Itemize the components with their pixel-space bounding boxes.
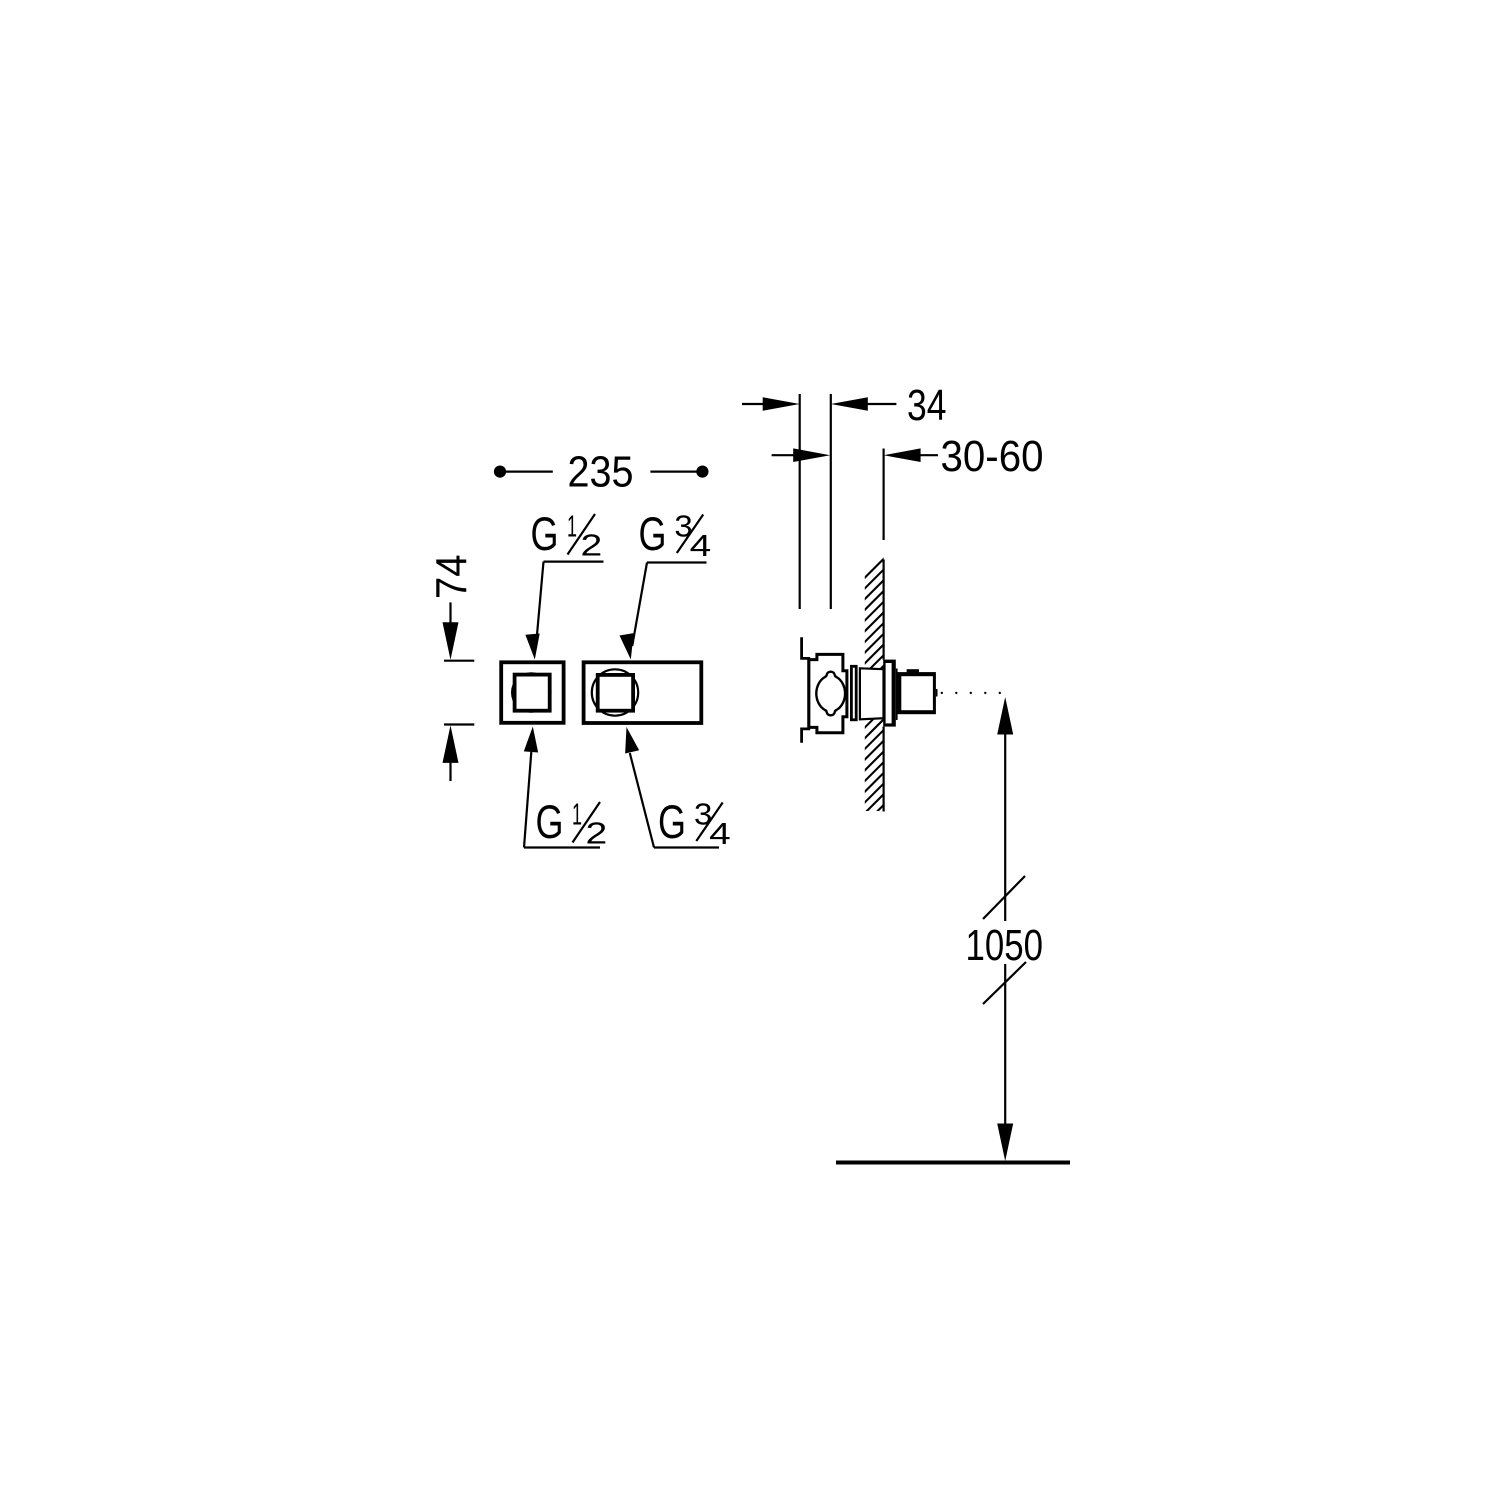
svg-text:1: 1 <box>567 509 577 544</box>
svg-text:1: 1 <box>572 797 582 832</box>
svg-text:2: 2 <box>581 528 603 563</box>
svg-text:74: 74 <box>428 555 477 600</box>
svg-text:30-60: 30-60 <box>941 432 1044 481</box>
svg-text:G: G <box>536 795 564 848</box>
svg-text:G: G <box>658 795 686 848</box>
svg-text:G: G <box>639 507 667 560</box>
svg-text:235: 235 <box>568 448 634 497</box>
svg-text:4: 4 <box>690 528 712 563</box>
svg-text:4: 4 <box>709 816 731 851</box>
svg-text:G: G <box>531 507 559 560</box>
svg-text:2: 2 <box>586 816 608 851</box>
svg-text:1050: 1050 <box>966 921 1044 970</box>
svg-text:34: 34 <box>907 381 947 430</box>
